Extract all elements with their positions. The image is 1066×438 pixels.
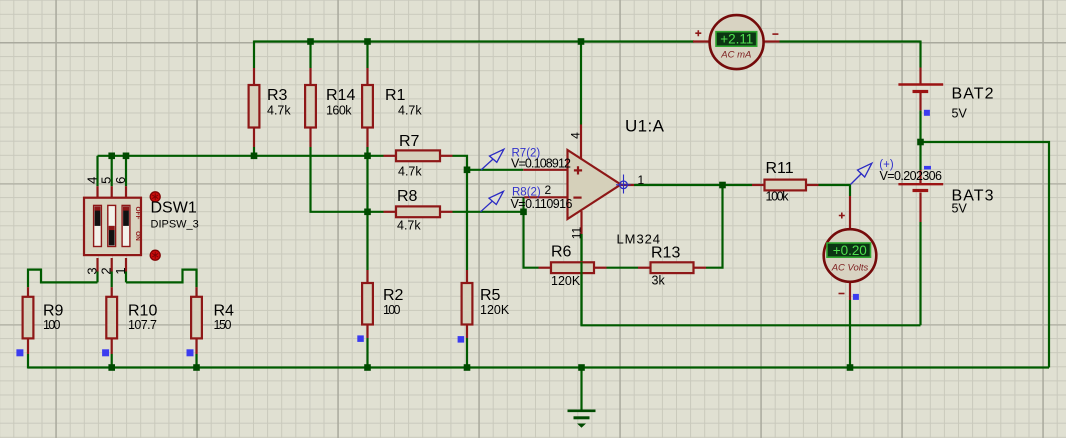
resistor R10: [106, 297, 157, 339]
pin stub BAT3 minus: [919, 193, 921, 223]
svg-text:2: 2: [99, 267, 114, 274]
wire minus node down to R6: [524, 212, 539, 268]
dip pin number 5: [99, 177, 114, 184]
dip pin number 6: [113, 177, 128, 184]
svg-text:+0.20: +0.20: [833, 243, 867, 258]
pin stub R1 top: [366, 68, 368, 85]
pin stub R10 bottom: [111, 338, 113, 354]
resistor R13: [651, 245, 694, 288]
svg-text:DSW1: DSW1: [151, 200, 197, 217]
pin stub R4 bottom: [195, 338, 197, 354]
wire R14 top stub: [309, 41, 311, 69]
wire R3 top stub: [253, 41, 255, 69]
op-amp pin number 4: [569, 132, 583, 139]
svg-text:160k: 160k: [326, 103, 352, 117]
pin stub ammeter right: [764, 40, 780, 42]
junction plus-input node: [464, 167, 471, 174]
svg-text:3: 3: [85, 267, 100, 274]
svg-text:R13: R13: [651, 245, 680, 262]
pin stub R5 top: [466, 270, 468, 283]
svg-text:R11: R11: [766, 160, 794, 177]
wire R11 right to probe and BAT3 plate: [819, 184, 851, 186]
wire R2 bottom to ground bus: [366, 338, 368, 368]
dip pin number 1: [113, 267, 128, 274]
resistor R1: [362, 85, 422, 128]
pin stub R7 right: [440, 155, 453, 157]
probe R8(2): [481, 187, 573, 212]
wire BAT3 bottom to V- rail: [919, 222, 921, 325]
junction node-A DIP pin5: [108, 153, 115, 160]
slot 1: [94, 205, 102, 246]
marker blue square R5: [458, 336, 465, 343]
wire BAT2 top: [919, 41, 921, 68]
svg-text:120K: 120K: [480, 303, 510, 317]
svg-text:R5: R5: [480, 287, 501, 304]
wire DIP pin 6: [125, 156, 127, 186]
svg-text:5V: 5V: [952, 202, 968, 216]
resistor R5: [462, 283, 510, 325]
wire R10 bottom: [111, 354, 113, 368]
wire R1 top stub: [366, 41, 368, 69]
svg-text:ON: ON: [134, 231, 141, 241]
ground: [568, 411, 596, 428]
wire R13 right up to output: [706, 185, 723, 268]
marker blue square voltmeter: [853, 294, 859, 300]
probe R8(2) underline: [512, 196, 550, 198]
probe R7(2): [481, 148, 571, 171]
pin stub R13 right: [694, 267, 707, 269]
pin op-amp pin11: [580, 211, 582, 234]
pin op-amp pin4: [580, 125, 582, 159]
pin stub DSW1 pin6: [125, 186, 127, 198]
pin stub DSW1 pin2: [111, 258, 113, 272]
wire top +V bus from R3 to BAT2: [254, 40, 921, 42]
op-amp pin number 11: [570, 226, 584, 239]
wire op-amp pin11 over R6: [580, 262, 582, 274]
svg-text:R14: R14: [326, 87, 355, 104]
pin stub R7 left: [384, 155, 397, 157]
svg-text:4: 4: [569, 132, 583, 139]
junction BAT2 BAT3 mid: [917, 139, 924, 146]
junction ground bus R5: [464, 364, 471, 371]
svg-text:V=0.110916: V=0.110916: [511, 197, 573, 211]
junction minus node: [520, 209, 527, 216]
pin stub DSW1 pin5: [111, 186, 113, 198]
svg-text:107.7: 107.7: [128, 318, 157, 332]
wire R14 bottom to R8 row: [311, 147, 384, 212]
pin stub R10 top: [111, 287, 113, 297]
svg-text:120K: 120K: [551, 274, 581, 288]
svg-text:R3: R3: [267, 87, 288, 104]
pin stub R14 bottom: [309, 128, 311, 148]
ammeter AC mA: [695, 15, 778, 69]
wire R3 bottom to node-A bus: [253, 147, 255, 156]
pin stub voltmeter plus: [849, 196, 851, 231]
pin stub R8 left: [384, 211, 397, 213]
wire BAT3 top: [919, 142, 921, 170]
junction node-A at R3: [251, 153, 258, 160]
wire ground bus bottom: [28, 366, 1049, 368]
resistor R2: [362, 283, 403, 325]
wire ground tap: [580, 368, 582, 411]
svg-text:100: 100: [43, 318, 61, 332]
svg-text:6: 6: [113, 177, 128, 184]
svg-text:150: 150: [214, 318, 232, 332]
pin stub ammeter left: [693, 40, 710, 42]
slot 2: [108, 205, 116, 246]
svg-text:+2.11: +2.11: [720, 32, 753, 47]
dip pin number 3: [85, 267, 100, 274]
wire minus node up to pin2: [522, 197, 524, 212]
svg-text:4.7k: 4.7k: [397, 219, 421, 233]
junction ground bus R4: [193, 364, 200, 371]
battery BAT3: [898, 184, 993, 215]
pin stub R11 left: [752, 184, 765, 186]
wire DIP pin2 to R10: [111, 272, 113, 288]
wire R8 right to minus node: [453, 211, 524, 213]
svg-text:4.7k: 4.7k: [398, 165, 422, 179]
svg-text:R8: R8: [397, 188, 418, 205]
svg-text:R1: R1: [385, 87, 406, 104]
pin stub R11 right: [806, 184, 819, 186]
node output target marker: [616, 175, 631, 194]
pin stub DSW1 pin3: [96, 258, 98, 272]
dip pin number 2: [99, 267, 114, 274]
dip pin number 4: [85, 177, 100, 184]
svg-text:3k: 3k: [652, 274, 666, 288]
resistor R9: [23, 297, 64, 339]
wire R4 bottom: [195, 354, 197, 368]
pin stub DSW1 pin4: [96, 186, 98, 198]
pin stub BAT2 minus: [919, 93, 921, 110]
wire DIP pin1 stub: [125, 272, 127, 283]
op-amp pin number 2: [545, 183, 552, 197]
svg-text:V=0.108912: V=0.108912: [511, 156, 571, 170]
junction ground bus R10: [108, 364, 115, 371]
wire R5 top to plus-input node: [466, 170, 468, 270]
wire op-amp pin11 lower: [580, 234, 582, 325]
svg-text:R6: R6: [551, 244, 572, 261]
resistor R4: [191, 297, 234, 339]
pin op-amp plus input: [523, 169, 567, 171]
junction node-A R1R2: [364, 153, 371, 160]
resistor R8: [396, 188, 440, 233]
voltmeter AC Volts: [824, 213, 877, 294]
svg-text:2: 2: [545, 183, 552, 197]
pin stub R3 top: [253, 68, 255, 85]
pin stub DSW1 pin1: [125, 258, 127, 272]
resistor R14: [305, 85, 355, 128]
svg-text:5V: 5V: [952, 107, 968, 121]
svg-text:R2: R2: [383, 287, 404, 304]
pin stub R3 bottom: [253, 128, 255, 148]
junction top bus pin4: [578, 38, 585, 45]
wire DIP pin 4: [96, 156, 98, 186]
marker blue square R9: [16, 349, 23, 356]
junction ground bus R2: [364, 364, 371, 371]
pin op-amp output: [621, 184, 634, 186]
wire R1 bottom through node A to R2: [366, 147, 368, 270]
pin stub R4 top: [195, 287, 197, 297]
pin stub R5 bottom: [466, 325, 468, 339]
junction output R13: [719, 182, 726, 189]
pin stub voltmeter minus: [849, 281, 851, 300]
resistor R11: [765, 160, 807, 204]
svg-text:OFF: OFF: [134, 207, 141, 220]
svg-text:1: 1: [638, 173, 645, 187]
pin stub R2 bottom: [366, 325, 368, 339]
pin op-amp minus input: [524, 196, 567, 198]
wire R9 bottom: [27, 354, 29, 369]
pin stub BAT3 plus: [919, 170, 921, 183]
marker blue square R2: [357, 335, 364, 342]
wire AC voltmeter plus: [849, 184, 851, 196]
wire DIP pin3 stub: [96, 272, 98, 283]
svg-text:R7: R7: [399, 133, 420, 150]
wire op-amp pin4 to top bus: [580, 42, 582, 125]
junction ground bus voltmeter: [847, 364, 854, 371]
junction ground bus tap: [578, 364, 585, 371]
wire R6 to R13: [607, 267, 639, 269]
pin stub BAT2 plus: [919, 68, 921, 84]
pin stub R14 top: [309, 68, 311, 85]
svg-text:1: 1: [113, 267, 128, 274]
junction R8 row R2: [364, 209, 371, 216]
svg-text:AC Volts: AC Volts: [831, 262, 869, 273]
marker blue square R10: [102, 349, 109, 356]
junction top bus R1: [364, 38, 371, 45]
op-amp pin number 1: [638, 173, 645, 187]
svg-text:U1:A: U1:A: [625, 117, 665, 136]
wire DIP pin1 jog to R4: [126, 270, 197, 288]
pin stub R8 right: [440, 211, 453, 213]
wire node-A bus DIP to R7: [98, 155, 384, 157]
wire R7 right to plus-input node: [453, 156, 468, 170]
pin stub R9 top: [27, 287, 29, 297]
marker blue square BAT2: [924, 110, 930, 116]
pin stub R6 left: [539, 267, 552, 269]
pin stub R2 top: [366, 270, 368, 283]
resistor R6: [551, 244, 594, 289]
wire DIP pin 5: [111, 156, 113, 186]
svg-text:V=0.202306: V=0.202306: [880, 169, 943, 183]
svg-text:100k: 100k: [766, 190, 790, 204]
wire R9 top jog to DIP pin3: [28, 270, 98, 288]
wire BAT2 bottom to mid junction: [919, 110, 921, 142]
pin stub R13 left: [638, 267, 651, 269]
svg-text:DIPSW_3: DIPSW_3: [151, 219, 199, 231]
svg-text:100: 100: [383, 303, 401, 317]
svg-text:5: 5: [99, 177, 114, 184]
actuator dot top: [150, 192, 160, 202]
wire mid rail right loop to ground bus: [921, 142, 1050, 368]
junction top bus R14: [307, 38, 314, 45]
dip switch DSW1: [84, 192, 199, 260]
resistor R3: [249, 85, 292, 128]
svg-text:4: 4: [85, 177, 100, 184]
battery BAT2: [898, 85, 993, 121]
op-amp U1:A: [568, 117, 665, 247]
slot 3: [122, 205, 130, 246]
wire plus-input node to op-amp pin stub: [467, 169, 523, 171]
wire R5 bottom to ground bus: [466, 338, 468, 368]
wire V- rail to op-amp pin11: [582, 234, 921, 325]
svg-text:BAT2: BAT2: [952, 86, 994, 103]
marker blue square BAT3: [924, 166, 931, 170]
svg-text:LM324: LM324: [617, 232, 661, 247]
pin stub R9 bottom: [27, 338, 29, 354]
resistor R7: [396, 133, 440, 179]
svg-text:4.7k: 4.7k: [398, 103, 422, 117]
actuator dot bottom: [150, 250, 160, 260]
marker blue square R4: [187, 349, 194, 356]
wire op-amp output to R11: [634, 184, 752, 186]
pin stub R1 bottom: [366, 128, 368, 148]
wire AC voltmeter minus to ground bus: [849, 300, 851, 368]
junction node-A DIP pin6: [123, 153, 130, 160]
probe (+): [851, 159, 943, 185]
svg-text:AC mA: AC mA: [720, 49, 751, 60]
svg-text:4.7k: 4.7k: [267, 103, 291, 117]
svg-text:11: 11: [570, 226, 584, 239]
pin stub R6 right: [594, 267, 607, 269]
